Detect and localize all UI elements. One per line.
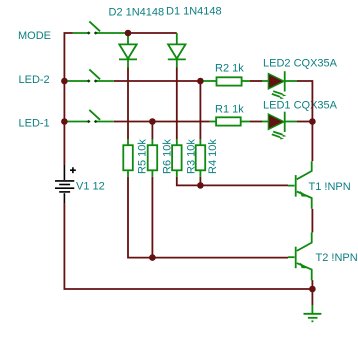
wire R4 top to LED-2 row — [199, 81, 201, 139]
svg-text:R5 10k: R5 10k — [136, 139, 148, 174]
junction dot D2 anode — [125, 30, 132, 37]
junction dot LED-2 left — [61, 78, 68, 85]
transistor T2 — [288, 232, 312, 280]
junction dot R4 bottom / T1 base — [197, 182, 204, 189]
svg-text:V1 12: V1 12 — [76, 181, 105, 193]
svg-text:LED-1: LED-1 — [19, 118, 50, 130]
wire MODE corner to switch S1 — [64, 33, 73, 165]
wire LED-1 row switch to R1 — [114, 121, 210, 123]
svg-text:LED2 CQX35A: LED2 CQX35A — [263, 58, 338, 70]
wire R6 bottom to T2 base rail — [151, 177, 153, 258]
ground — [304, 305, 322, 321]
svg-text:LED1 CQX35A: LED1 CQX35A — [263, 100, 338, 112]
diode D1 — [168, 33, 186, 68]
wire R6 top to LED-1 row — [151, 122, 153, 140]
wire D1 cathode down to R3 — [176, 68, 178, 140]
svg-text:T2 !NPN: T2 !NPN — [316, 252, 358, 264]
wire LED-1 row left stub — [64, 121, 67, 123]
transistor T1 — [288, 161, 312, 209]
wire LED-2 row R2 to LED2 — [250, 80, 262, 82]
wire LED-2 row switch to R2 junction — [114, 80, 201, 82]
wire LED1 cathode to right rail junction — [297, 121, 312, 123]
wire R4 bottom to T1 base junction — [199, 177, 201, 186]
LED2 — [262, 71, 297, 99]
battery V1 — [55, 165, 76, 203]
switch S1 MODE — [73, 21, 127, 34]
junction dot R6 bottom / T2 base — [149, 254, 156, 261]
switch S3 LED-1 — [68, 110, 114, 123]
wire right rail LED1 junction to T1 collector — [311, 122, 313, 162]
wire D2 cathode down to R5 — [127, 68, 129, 140]
resistor R6 (vertical) — [148, 139, 158, 177]
junction dot R2 left / R4 top — [197, 78, 204, 85]
svg-text:D1 1N4148: D1 1N4148 — [166, 6, 222, 18]
junction dot R6 top — [149, 118, 156, 125]
svg-text:MODE: MODE — [18, 30, 51, 42]
resistor R5 (vertical) — [123, 139, 133, 177]
wire R3 bottom to T1 base rail — [177, 177, 288, 186]
wire battery bottom to ground rail — [64, 203, 312, 289]
resistor R4 (vertical) — [196, 139, 206, 177]
svg-text:LED-2: LED-2 — [19, 74, 50, 86]
resistor R1 (horizontal) — [210, 117, 250, 125]
svg-text:T1 !NPN: T1 !NPN — [309, 181, 351, 193]
junction dot T2 emitter / ground — [309, 286, 316, 293]
wire T2 emitter to ground junction — [311, 280, 313, 305]
switch S2 LED-2 — [68, 69, 114, 82]
diode D2 — [119, 33, 137, 68]
wire R5 bottom to T2 base rail — [128, 177, 288, 258]
LED1 — [262, 112, 297, 140]
svg-text:R2 1k: R2 1k — [215, 63, 244, 75]
wire LED2 cathode to right rail — [297, 81, 312, 122]
svg-text:D2 1N4148: D2 1N4148 — [109, 7, 165, 19]
wire T1 emitter to T2 collector — [311, 209, 313, 233]
resistor R3 (vertical) — [172, 139, 182, 177]
svg-text:R4 10k: R4 10k — [207, 139, 219, 174]
wire LED-2 row left stub — [64, 80, 67, 82]
svg-text:R1 1k: R1 1k — [215, 104, 244, 116]
resistor R2 (horizontal) — [202, 77, 250, 85]
wire MODE row D2 anode to D1 anode — [128, 32, 177, 34]
junction dot LED-1 left — [61, 118, 68, 125]
junction dot LED1 / T1 collector — [309, 118, 316, 125]
wire LED-1 row R1 to LED1 — [250, 121, 262, 123]
